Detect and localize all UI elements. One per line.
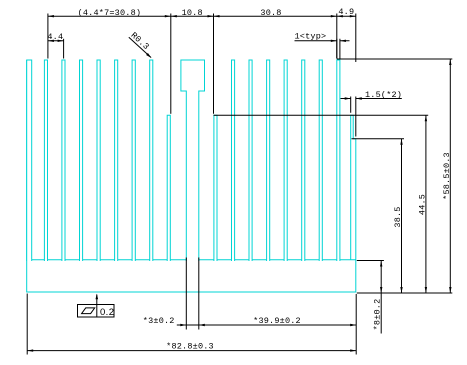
fin R6 bbox=[319, 60, 322, 261]
extension line at x=355.8 top bbox=[355, 14, 357, 63]
extension line at x=213.5 bbox=[213, 14, 215, 114]
svg-text:38.5: 38.5 bbox=[393, 206, 403, 227]
dimension 1.5(*2) lines bbox=[341, 98, 402, 100]
short fin right of center bbox=[214, 115, 217, 261]
flatness symbol parallelogram bbox=[82, 308, 95, 314]
bottom extension line x=356.2 bbox=[355, 294, 357, 355]
fin L5 bbox=[97, 60, 100, 261]
vertical dimension *8±0.2 bbox=[380, 261, 382, 334]
fin R3 bbox=[267, 60, 270, 261]
svg-text:*8±0.2: *8±0.2 bbox=[373, 299, 383, 331]
fin L6 bbox=[115, 60, 118, 261]
svg-text:30.8: 30.8 bbox=[260, 8, 281, 18]
svg-text:*82.8±0.3: *82.8±0.3 bbox=[166, 341, 214, 351]
fin L3 bbox=[62, 60, 65, 261]
svg-text:R0.3: R0.3 bbox=[129, 30, 151, 52]
chain arrowheads bbox=[48, 15, 54, 17]
dimension *82.8±0.3 line bbox=[27, 350, 356, 352]
1(typ) extension lines on last fin walls bbox=[337, 39, 340, 59]
fin R2 bbox=[249, 60, 252, 261]
left edge fin (1.5 thick) bbox=[27, 60, 32, 261]
fin R1 bbox=[232, 60, 235, 261]
extension line at x=170.8 bbox=[170, 14, 172, 114]
svg-text:*39.9±0.2: *39.9±0.2 bbox=[253, 316, 301, 326]
fin R7 last fin bbox=[337, 60, 340, 261]
extension line at x=63.6 bbox=[63, 39, 65, 59]
extension line base bottom y=293 bbox=[357, 292, 453, 294]
svg-text:4.4: 4.4 bbox=[47, 32, 63, 42]
vertical dimension 38.5 bbox=[401, 139, 403, 293]
bottom extension line x=27.2 bbox=[26, 294, 28, 355]
short fin left of center bbox=[167, 115, 170, 261]
svg-text:44.5: 44.5 bbox=[418, 194, 428, 215]
dimension 1(typ) leader and line bbox=[295, 40, 350, 42]
svg-text:4.9: 4.9 bbox=[338, 7, 354, 17]
heatsink base outline (left edge, bottom, right edge with step) bbox=[27, 60, 356, 292]
svg-text:(4.4*7=30.8): (4.4*7=30.8) bbox=[78, 8, 142, 18]
extension line top of fins y=58.3 bbox=[337, 58, 453, 60]
dimension *3±0.2 line bbox=[177, 324, 199, 326]
1.5(*2) extension lines bbox=[351, 97, 356, 137]
extension line at x=47.9 bbox=[47, 14, 49, 59]
bottom extension line stem left x=185.8 bbox=[185, 258, 187, 330]
svg-text:*58.5±0.3: *58.5±0.3 bbox=[442, 152, 452, 200]
svg-text:1<typ>: 1<typ> bbox=[295, 31, 327, 41]
top dimension chain line bbox=[48, 15, 356, 17]
extension line at x=336.8 bbox=[336, 14, 338, 59]
vertical dimension *58.5±0.3 bbox=[449, 59, 451, 293]
fin L7 bbox=[132, 60, 135, 261]
extension line top of short fins y=115.3 bbox=[214, 114, 429, 116]
dimension *39.9±0.2 line bbox=[199, 324, 356, 326]
fin R5 bbox=[302, 60, 305, 261]
extension line base top y=260.5 bbox=[357, 260, 384, 262]
vertical dimension 44.5 bbox=[425, 115, 427, 293]
flatness leader arrow to base bottom bbox=[96, 295, 98, 305]
bottom extension line stem right x=198.8 bbox=[198, 258, 200, 330]
fin L2 bbox=[44, 60, 47, 261]
leader R0.3 bbox=[129, 37, 151, 57]
svg-text:10.8: 10.8 bbox=[182, 8, 203, 18]
extension line right step y=138.8 bbox=[352, 138, 405, 140]
fin L8 bbox=[150, 60, 153, 261]
heatsink base top surface bbox=[27, 259, 356, 261]
dimension 4.4 line bbox=[48, 40, 64, 42]
svg-text:*3±0.2: *3±0.2 bbox=[143, 316, 175, 326]
svg-text:1.5(*2): 1.5(*2) bbox=[365, 90, 402, 100]
fin L4 bbox=[80, 60, 83, 261]
svg-text:0.2: 0.2 bbox=[100, 307, 114, 318]
flatness feature control frame bbox=[78, 305, 115, 318]
center T-post with clip head bbox=[181, 60, 205, 261]
fin R4 bbox=[284, 60, 287, 261]
